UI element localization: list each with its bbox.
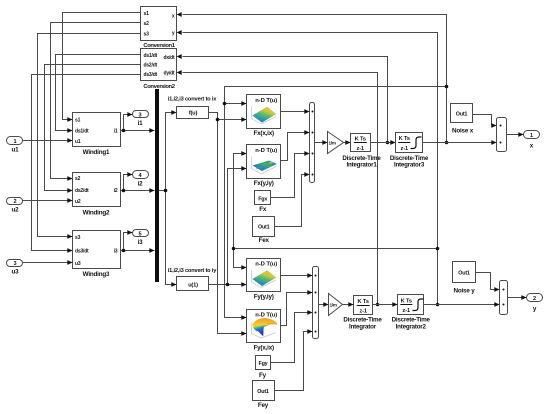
output port 5 (i3) bbox=[133, 230, 149, 237]
wire u3 input bbox=[23, 262, 73, 264]
wire x into Fx(x,ix) bbox=[225, 103, 247, 105]
gain 1/m (y) bbox=[329, 294, 343, 316]
junction dy/dt tap bbox=[376, 303, 380, 307]
constant Fgy bbox=[256, 356, 271, 370]
svg-text:Integrator: Integrator bbox=[349, 323, 377, 330]
wire Fey (Out1) to Add2 bbox=[275, 332, 313, 391]
svg-text:Out1: Out1 bbox=[257, 389, 269, 395]
svg-text:Fx(y,iy): Fx(y,iy) bbox=[254, 180, 274, 187]
wire Integrator1 to Integrator3 (dx/dt) bbox=[371, 142, 396, 144]
junction dx/dt tap bbox=[386, 141, 390, 145]
svg-text:3: 3 bbox=[14, 261, 17, 267]
lookup table Fx(x,ix) (n-D T(u)) bbox=[247, 95, 281, 129]
block Fcn f(u) (i1,i2,i3 convert to ix) bbox=[177, 107, 209, 119]
wire Integrator3 output (x) to Add3 bbox=[423, 142, 497, 144]
svg-text:Winding2: Winding2 bbox=[83, 210, 110, 217]
block Conversion1 (mirrored subsystem, inputs x,y right / outputs s1,s2,s3 left) bbox=[141, 7, 177, 41]
input port 2 (u2) bbox=[7, 198, 23, 205]
svg-text:K Ts: K Ts bbox=[399, 136, 410, 142]
junction iy bbox=[226, 283, 230, 287]
wire i1 (Winding1 to mux) bbox=[121, 130, 155, 132]
wire i3 (Winding3 to mux) bbox=[121, 250, 155, 252]
wire Noise y to Add4 bbox=[476, 273, 500, 290]
wire Fx(x,ix) output to Add1 bbox=[281, 111, 310, 113]
svg-text:i1,i2,i3 convert to ix: i1,i2,i3 convert to ix bbox=[168, 97, 217, 103]
svg-text:z-1: z-1 bbox=[357, 146, 364, 152]
sum block Add2 (y-direction forces) bbox=[313, 267, 319, 339]
wire mux output to f(u) bbox=[159, 113, 177, 191]
wire dy/dt feedback (to Conversion2) bbox=[183, 73, 378, 305]
svg-text:u1: u1 bbox=[12, 146, 20, 153]
gain 1/m (x) bbox=[328, 132, 344, 154]
svg-text:s3: s3 bbox=[144, 32, 150, 38]
svg-text:ds3/dt: ds3/dt bbox=[144, 72, 158, 78]
outport block Out1 (Noise y) bbox=[453, 262, 476, 283]
output port 2 (y) bbox=[527, 294, 543, 302]
svg-text:Fey: Fey bbox=[258, 402, 269, 409]
svg-text:y: y bbox=[533, 306, 537, 313]
svg-text:z-1: z-1 bbox=[403, 308, 410, 314]
svg-text:s1: s1 bbox=[75, 118, 81, 124]
wire ix branch down to Fy(x,ix) bbox=[218, 120, 247, 334]
svg-text:2: 2 bbox=[14, 199, 17, 205]
sum block Add1 (x-direction forces) bbox=[310, 103, 315, 183]
svg-text:1/m: 1/m bbox=[330, 303, 337, 308]
block Fcn u(1) (i1,i2,i3 convert to iy) bbox=[177, 277, 209, 291]
svg-text:u(1): u(1) bbox=[188, 282, 198, 288]
svg-text:u2: u2 bbox=[12, 207, 20, 214]
svg-text:z-1: z-1 bbox=[359, 308, 366, 314]
wire i1 branch to port 3 bbox=[124, 115, 133, 131]
svg-text:1: 1 bbox=[530, 133, 533, 139]
svg-text:Winding3: Winding3 bbox=[83, 271, 110, 278]
wire x branch to lookup column bbox=[225, 87, 447, 318]
junction y branch bbox=[436, 247, 440, 251]
wire y feedback vertical (position y to Conversion1) bbox=[183, 33, 438, 305]
wire iy (u(1) output) to Fy(y,iy) bbox=[209, 284, 247, 286]
mux Mux (thick black bar combining i1,i2,i3) bbox=[155, 89, 159, 282]
svg-text:Integrator1: Integrator1 bbox=[346, 162, 377, 169]
junction x branch bbox=[445, 85, 449, 89]
svg-text:1/m: 1/m bbox=[329, 141, 336, 146]
constant Fgx bbox=[255, 191, 271, 205]
wire Add2 to gain 1/m (y) bbox=[319, 304, 329, 306]
svg-text:f(u): f(u) bbox=[189, 111, 198, 117]
svg-text:u3: u3 bbox=[75, 261, 81, 267]
svg-text:y: y bbox=[172, 31, 175, 37]
junction i1 bbox=[122, 129, 126, 133]
wire Add1 to gain 1/m (x) bbox=[315, 142, 328, 144]
svg-text:ds3/dt: ds3/dt bbox=[75, 248, 89, 254]
block Winding2 bbox=[73, 173, 121, 207]
wire s1 (Conversion1 to Winding1) bbox=[63, 13, 141, 120]
svg-text:Conversion1: Conversion1 bbox=[143, 43, 175, 49]
lookup table Fy(y,iy) (n-D T(u)) bbox=[247, 259, 281, 292]
svg-text:n-D T(u): n-D T(u) bbox=[255, 261, 277, 267]
svg-text:u3: u3 bbox=[12, 269, 20, 276]
block Discrete-Time Integrator2 (K Ts/z-1 with saturation) bbox=[398, 295, 424, 315]
lookup table Fx(y,iy) (n-D T(u)) bbox=[247, 145, 281, 179]
wire gain to Integrator1 bbox=[344, 142, 351, 144]
wire ds1/dt (Conversion2 to Winding1) bbox=[56, 55, 141, 131]
wire s3 (Conversion1 to Winding3) bbox=[38, 34, 141, 237]
svg-text:K Ts: K Ts bbox=[355, 136, 366, 142]
wire ds3/dt (Conversion2 to Winding3) bbox=[32, 75, 141, 251]
svg-text:K Ts: K Ts bbox=[358, 299, 369, 305]
svg-text:u1: u1 bbox=[75, 139, 81, 145]
wire Fx(y,iy) output to Add1 bbox=[281, 133, 310, 161]
block Winding1 bbox=[73, 113, 121, 147]
wire Noise x to Add3 bbox=[473, 115, 497, 126]
svg-text:Integrator3: Integrator3 bbox=[394, 162, 425, 169]
svg-text:i2: i2 bbox=[114, 188, 118, 194]
junction on integrator3 output (x) bbox=[445, 141, 449, 145]
svg-text:Fy(y,iy): Fy(y,iy) bbox=[254, 294, 274, 301]
svg-text:i1: i1 bbox=[138, 120, 144, 127]
lookup table Fy(x,ix) (n-D T(u)) bbox=[247, 310, 281, 343]
svg-text:3: 3 bbox=[139, 112, 142, 118]
svg-text:i3: i3 bbox=[138, 239, 144, 246]
svg-text:Fgy: Fgy bbox=[259, 361, 268, 367]
svg-text:ds1/dt: ds1/dt bbox=[75, 128, 89, 134]
outport block Out1 (Fey) bbox=[253, 381, 275, 401]
svg-text:i1,i2,i3 convert to iy: i1,i2,i3 convert to iy bbox=[168, 268, 217, 274]
svg-text:Out1: Out1 bbox=[458, 270, 470, 276]
svg-text:Fgx: Fgx bbox=[258, 196, 267, 202]
svg-text:s1: s1 bbox=[144, 11, 150, 17]
svg-text:Fx(x,ix): Fx(x,ix) bbox=[253, 130, 274, 137]
svg-text:Noise y: Noise y bbox=[454, 287, 476, 294]
wire Fgy to Add2 bbox=[271, 313, 313, 363]
svg-text:Out1: Out1 bbox=[258, 225, 270, 231]
svg-text:2: 2 bbox=[533, 296, 536, 302]
wire s2 (Conversion1 to Winding2) bbox=[51, 23, 141, 179]
block Conversion2 (mirrored subsystem, inputs dx/dt,dy/dt right / outputs ds1/dt.. left) bbox=[141, 49, 177, 81]
svg-text:x: x bbox=[172, 13, 175, 19]
wire Integrator2 output (y) to Add4 bbox=[424, 304, 500, 306]
svg-text:i2: i2 bbox=[138, 181, 144, 188]
junction i3 bbox=[122, 249, 126, 253]
svg-text:s2: s2 bbox=[75, 176, 81, 182]
svg-text:Fy: Fy bbox=[259, 372, 267, 379]
block Winding3 bbox=[73, 231, 121, 269]
svg-text:n-D T(u): n-D T(u) bbox=[255, 312, 277, 318]
wire y to Fx(y,iy) bbox=[234, 154, 247, 249]
wire Fy(x,ix) output to Add2 bbox=[281, 293, 313, 326]
output port 1 (x) bbox=[524, 131, 540, 139]
svg-text:Fy(x,ix): Fy(x,ix) bbox=[253, 345, 274, 352]
wire x feedback vertical (position x to Conversion1) bbox=[183, 15, 447, 143]
svg-text:1: 1 bbox=[14, 139, 17, 145]
svg-text:dx/dt: dx/dt bbox=[164, 55, 175, 61]
wire Add4 to output port y bbox=[508, 297, 527, 299]
wire iy branch up to Fx(y,iy) bbox=[228, 169, 247, 285]
wire Fex (Out1) to Add1 bbox=[275, 175, 310, 227]
svg-text:Integrator2: Integrator2 bbox=[396, 323, 427, 330]
wire mux output to u(1) bbox=[166, 191, 177, 285]
wire Fy(y,iy) output to Add2 bbox=[281, 275, 313, 277]
wire u2 input bbox=[23, 200, 73, 202]
junction y tee bbox=[232, 247, 236, 251]
block Discrete-Time Integrator3 (K Ts/z-1 with saturation) bbox=[396, 133, 423, 153]
block Discrete-Time Integrator (K Ts/z-1) bbox=[354, 296, 373, 315]
svg-text:5: 5 bbox=[139, 231, 142, 237]
sum block Add3 (x + noise) bbox=[497, 118, 507, 152]
svg-text:x: x bbox=[530, 143, 534, 150]
svg-text:i3: i3 bbox=[114, 248, 118, 254]
input port 3 (u3) bbox=[7, 260, 23, 267]
wire i3 branch to port 5 bbox=[124, 233, 133, 251]
wire Add3 to output port x bbox=[507, 134, 524, 136]
wire ds2/dt (Conversion2 to Winding2) bbox=[45, 65, 141, 191]
wire y branch horizontal to lookup column bbox=[234, 248, 438, 250]
svg-text:s3: s3 bbox=[75, 235, 81, 241]
junction i2 bbox=[122, 189, 126, 193]
svg-text:Conversion2: Conversion2 bbox=[143, 84, 174, 90]
wire Integrator to Integrator2 (dy/dt) bbox=[373, 304, 398, 306]
outport block Out1 (Fex) bbox=[253, 217, 275, 237]
wire Fgx to Add1 bbox=[271, 154, 310, 198]
wire i2 (Winding2 to mux) bbox=[121, 190, 155, 192]
svg-text:Out1: Out1 bbox=[456, 112, 468, 118]
svg-text:Noise x: Noise x bbox=[452, 127, 474, 134]
output port 4 (i2) bbox=[133, 171, 149, 179]
svg-text:Fex: Fex bbox=[259, 237, 270, 244]
svg-text:Fx: Fx bbox=[259, 206, 267, 213]
outport block Out1 (Noise x) bbox=[451, 104, 473, 123]
junction mux output bbox=[164, 189, 168, 193]
svg-text:ds2/dt: ds2/dt bbox=[75, 188, 89, 194]
svg-text:ds2/dt: ds2/dt bbox=[144, 63, 158, 69]
output port 3 (i1) bbox=[133, 111, 149, 118]
sum block Add4 (y + noise) bbox=[500, 281, 508, 315]
svg-text:n-D T(u): n-D T(u) bbox=[255, 98, 277, 104]
svg-text:i1: i1 bbox=[114, 128, 118, 134]
svg-text:u2: u2 bbox=[75, 199, 81, 205]
junction on integrator2 output (y) bbox=[436, 303, 440, 307]
svg-text:s2: s2 bbox=[144, 21, 150, 27]
wire dx/dt feedback (to Conversion2) bbox=[183, 57, 388, 143]
block Discrete-Time Integrator1 (K Ts/z-1) bbox=[351, 134, 371, 152]
input port 1 (u1) bbox=[7, 137, 23, 145]
wire y to Fy(y,iy) bbox=[234, 249, 247, 268]
svg-text:K Ts: K Ts bbox=[401, 299, 412, 305]
wire i2 branch to port 4 bbox=[124, 175, 133, 191]
junction ix bbox=[216, 118, 220, 122]
svg-text:Winding1: Winding1 bbox=[83, 149, 110, 156]
junction x to Fx(x,ix) bbox=[223, 102, 227, 106]
svg-text:ds1/dt: ds1/dt bbox=[144, 53, 158, 59]
svg-text:dy/dt: dy/dt bbox=[164, 70, 175, 76]
wire gain to Discrete-Time Integrator bbox=[343, 304, 354, 306]
wire u1 input bbox=[23, 140, 73, 142]
wire ix (f(u) output) to Fx(x,ix) bbox=[209, 113, 247, 120]
svg-text:n-D T(u): n-D T(u) bbox=[255, 148, 277, 154]
svg-text:z-1: z-1 bbox=[401, 146, 408, 152]
